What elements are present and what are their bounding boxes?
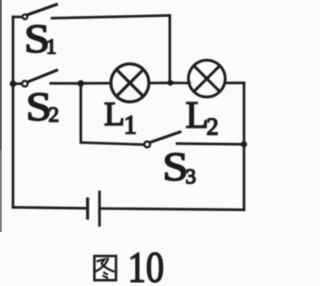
svg-text:2: 2 (49, 103, 60, 127)
svg-text:1: 1 (124, 110, 137, 139)
svg-text:L: L (186, 95, 209, 137)
svg-text:S: S (162, 144, 188, 189)
svg-text:3: 3 (186, 165, 197, 189)
svg-text:L: L (104, 96, 125, 133)
svg-text:1: 1 (46, 35, 57, 59)
svg-text:2: 2 (207, 115, 219, 141)
svg-text:10: 10 (128, 245, 164, 286)
